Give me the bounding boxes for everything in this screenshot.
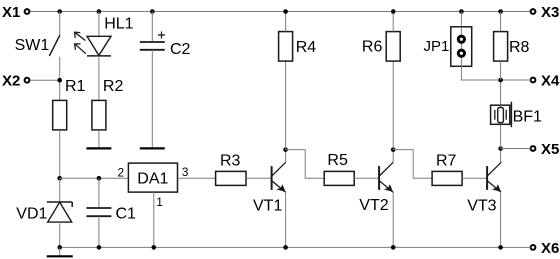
resistor R3 bbox=[216, 152, 246, 185]
wire JP1 to X4 line bbox=[461, 66, 530, 80]
node VT2 emitter bottom bbox=[391, 245, 396, 250]
wire R6 to top rail bbox=[392, 12, 394, 32]
terminal X2 bbox=[25, 78, 30, 83]
ground under C2 bbox=[140, 147, 165, 149]
bottom rail wire bbox=[60, 246, 531, 248]
node VT3 emitter bottom bbox=[498, 245, 503, 250]
resistor R2 bbox=[92, 78, 124, 130]
wire HL1 to R2 bbox=[98, 56, 100, 101]
top rail wire X1..X3 bbox=[30, 11, 531, 13]
svg-text:VT1: VT1 bbox=[253, 197, 282, 214]
wire R3 to VT1 base bbox=[246, 177, 272, 179]
svg-text:R3: R3 bbox=[220, 152, 241, 169]
wire X2 to node bbox=[30, 79, 60, 81]
node top rail R4 bbox=[283, 9, 288, 14]
wire VT2 collector to R6 bbox=[392, 61, 394, 150]
wire SW1 lower stub to R1 bbox=[59, 57, 61, 101]
svg-text:X3: X3 bbox=[541, 4, 559, 21]
svg-text:R1: R1 bbox=[65, 78, 86, 95]
svg-text:JP1: JP1 bbox=[424, 38, 450, 55]
svg-text:VD1: VD1 bbox=[16, 206, 47, 223]
ground under R2 bbox=[86, 147, 111, 149]
switch SW1 bbox=[15, 35, 60, 56]
wire VT3 collector up bbox=[500, 149, 502, 163]
node top rail R6 bbox=[391, 9, 396, 14]
LED HL1 bbox=[75, 15, 134, 56]
svg-text:C1: C1 bbox=[116, 206, 137, 223]
resistor R4 bbox=[279, 32, 317, 61]
svg-text:SW1: SW1 bbox=[15, 37, 50, 54]
capacitor C2 bbox=[140, 32, 191, 58]
wire R5 to VT2 base bbox=[354, 177, 379, 179]
resistor R7 bbox=[432, 152, 462, 185]
svg-text:VT2: VT2 bbox=[359, 197, 388, 214]
zener diode VD1 bbox=[16, 202, 72, 223]
svg-text:X2: X2 bbox=[2, 73, 20, 90]
wire rail to C2 bbox=[151, 12, 153, 43]
wire DA1 pin1 to bottom rail bbox=[153, 192, 155, 247]
wire R8/X4 node to BF1 bbox=[500, 80, 502, 105]
node VT2 collector bbox=[391, 147, 396, 152]
wire R4 to top rail bbox=[285, 12, 287, 32]
wire BF1 to X5 node bbox=[500, 124, 502, 148]
node top rail / SW1 bbox=[57, 9, 62, 14]
transistor VT3 bbox=[467, 162, 501, 214]
node top rail HL1 bbox=[97, 9, 102, 14]
wire node to C1 bbox=[98, 178, 100, 208]
ground bbox=[47, 247, 73, 256]
node VT3 collector / X5 bbox=[498, 146, 503, 151]
resistor R8 bbox=[494, 32, 530, 61]
svg-text:R4: R4 bbox=[296, 39, 317, 56]
node VT1 emitter bottom bbox=[283, 245, 288, 250]
wire VT1 collector to R4 bbox=[285, 61, 287, 150]
svg-text:DA1: DA1 bbox=[137, 171, 168, 188]
svg-text:X6: X6 bbox=[541, 240, 559, 257]
node VT1 collector bbox=[283, 147, 288, 152]
svg-text:R5: R5 bbox=[327, 152, 348, 169]
wire VD1 to bottom rail bbox=[59, 222, 61, 247]
capacitor C1 bbox=[86, 206, 136, 223]
wire VT2 collector up bbox=[392, 150, 394, 163]
wire rail to JP1 bbox=[460, 12, 462, 67]
wire rail to R8 bbox=[500, 12, 502, 32]
wire VT2 collector jog to R7 bbox=[393, 150, 432, 179]
wire C2 to ground bbox=[151, 50, 153, 148]
resistor R1 bbox=[53, 78, 86, 130]
wire VT2 emitter to bottom rail bbox=[392, 192, 394, 247]
transistor VT1 bbox=[253, 162, 286, 214]
terminal X5 bbox=[531, 146, 536, 151]
svg-text:X1: X1 bbox=[2, 4, 20, 21]
terminal X6 bbox=[531, 245, 536, 250]
svg-text:3: 3 bbox=[182, 165, 189, 179]
svg-text:X5: X5 bbox=[541, 141, 559, 158]
node top rail JP1 bbox=[459, 9, 464, 14]
jumper JP1 bbox=[424, 27, 472, 67]
wire node to DA1 pin 2 bbox=[60, 177, 129, 179]
IC DA1 bbox=[128, 163, 177, 192]
node DA1 pin1 bbox=[152, 245, 157, 250]
node bottom rail ground bbox=[57, 245, 62, 250]
wire C1 to bottom rail bbox=[98, 216, 100, 247]
wire VT1 collector jog to R5 bbox=[286, 150, 325, 179]
wire node to VD1 bbox=[59, 178, 61, 202]
wire SW1 upper stub bbox=[59, 12, 61, 36]
svg-text:R6: R6 bbox=[362, 39, 383, 56]
svg-text:C2: C2 bbox=[170, 41, 191, 58]
svg-text:R7: R7 bbox=[436, 152, 457, 169]
node C1 bottom bbox=[97, 245, 102, 250]
resistor R6 bbox=[362, 32, 400, 61]
wire DA1 pin3 to R3 bbox=[178, 177, 216, 179]
svg-text:BF1: BF1 bbox=[513, 108, 542, 125]
wire R1 to VD1 node bbox=[59, 130, 61, 178]
svg-text:1: 1 bbox=[156, 195, 163, 209]
wire rail to HL1 bbox=[98, 12, 100, 37]
svg-text:R8: R8 bbox=[509, 39, 530, 56]
node R8 bottom / X4 bbox=[498, 78, 503, 83]
svg-text:VT3: VT3 bbox=[467, 197, 496, 214]
wire VT1 collector up bbox=[285, 150, 287, 163]
node top rail R8 bbox=[498, 9, 503, 14]
node top rail C2 bbox=[150, 9, 155, 14]
wire VT3 emitter to bottom rail bbox=[500, 192, 502, 247]
wire R2 to ground bbox=[98, 130, 100, 148]
resistor R5 bbox=[324, 152, 354, 185]
wire R8 to X4 node bbox=[500, 61, 502, 80]
wire R7 to VT3 base bbox=[462, 177, 487, 179]
svg-text:HL1: HL1 bbox=[104, 15, 133, 32]
wire node to X5 bbox=[501, 148, 531, 150]
wire VT1 emitter to bottom rail bbox=[285, 192, 287, 247]
node C1 top bbox=[97, 176, 102, 181]
transistor VT2 bbox=[359, 162, 393, 214]
svg-text:X4: X4 bbox=[541, 73, 560, 90]
node VD1/DA1 pin2 bbox=[57, 176, 62, 181]
terminal X3 bbox=[531, 9, 536, 14]
terminal X4 bbox=[531, 78, 536, 83]
svg-text:R2: R2 bbox=[103, 78, 124, 95]
buzzer BF1 bbox=[491, 102, 542, 128]
svg-text:2: 2 bbox=[118, 165, 125, 179]
node X2 junction bbox=[57, 78, 62, 83]
terminal X1 bbox=[25, 9, 30, 14]
